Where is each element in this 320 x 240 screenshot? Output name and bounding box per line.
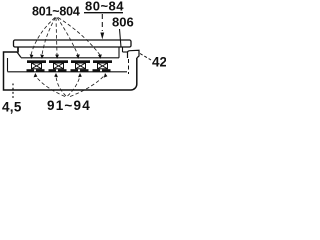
ledge chamfer top-left	[17, 52, 21, 58]
leader from 80~84 (dashed with arrow)	[101, 14, 103, 31]
support tick under plate left end	[17, 47, 19, 53]
svg-text:801~804: 801~804	[32, 5, 80, 19]
electrode 801	[27, 60, 46, 63]
inner wall left	[7, 58, 9, 72]
bump 92 (box with X)	[54, 63, 64, 69]
terminal 42	[128, 50, 140, 58]
package outer wall (4,5)	[4, 52, 137, 90]
pads under bump 91	[27, 69, 35, 71]
leader from 806	[120, 29, 122, 47]
leader fan from 801~804	[31, 18, 100, 56]
svg-text:91~94: 91~94	[47, 98, 91, 113]
pads under bump 94	[93, 69, 101, 71]
shelf line	[21, 57, 119, 59]
svg-text:4,5: 4,5	[2, 100, 22, 115]
underline of 80~84	[84, 12, 123, 14]
svg-text:806: 806	[112, 15, 134, 30]
svg-text:80~84: 80~84	[85, 0, 124, 14]
bump 94 (box with X)	[98, 63, 108, 69]
leader from 4,5 (dotted)	[12, 84, 14, 100]
arrowheads of 801~804 fan	[30, 54, 102, 59]
plate 806	[14, 40, 132, 47]
arrowheads of 91~94 fan	[34, 73, 108, 78]
pads under bump 93	[71, 69, 79, 71]
right support under plate	[118, 47, 120, 58]
cavity floor line	[8, 71, 128, 73]
leader to 42 (dashed)	[140, 54, 151, 61]
electrode 804	[93, 60, 112, 63]
pads under bump 92	[49, 69, 57, 71]
bump 93 (box with X)	[76, 63, 86, 69]
electrode 802	[49, 60, 68, 63]
hidden part of terminal 42 (dashed)	[128, 59, 130, 74]
leader fan from 91~94	[36, 75, 106, 97]
bump 91 (box with X)	[32, 63, 42, 69]
electrode 803	[71, 60, 90, 63]
svg-text:42: 42	[152, 55, 166, 70]
